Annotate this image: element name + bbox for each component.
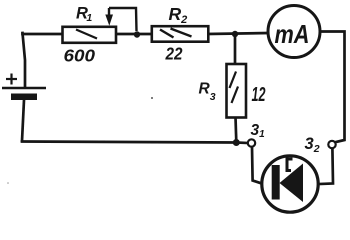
svg-text:22: 22 xyxy=(165,44,183,64)
svg-text:600: 600 xyxy=(64,46,96,66)
svg-text:mA: mA xyxy=(275,19,310,49)
svg-text:12: 12 xyxy=(252,84,266,106)
